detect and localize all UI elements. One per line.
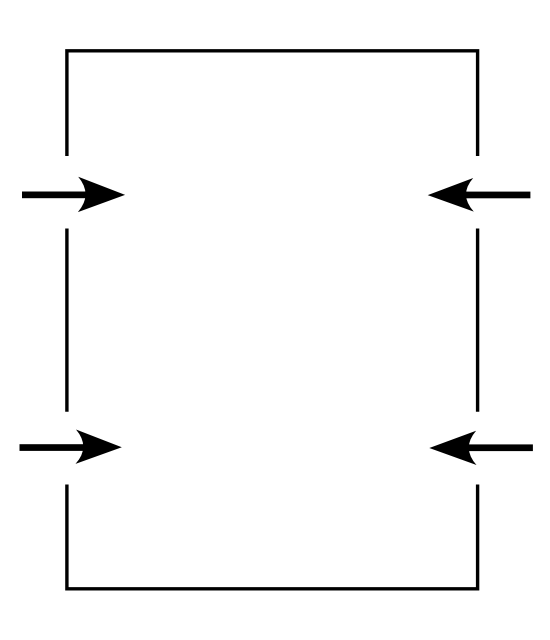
wire top side (left corner, top run, right corner) [67,51,478,156]
wire bottom side (left corner, bottom run, right corner) [67,485,478,589]
wire right middle segment [476,229,479,412]
arrow lower-left (points right into loop) [20,430,122,464]
wire left middle segment [65,229,68,412]
arrow upper-left (points right into loop) [22,177,125,212]
arrow lower-right (points left into loop) [429,431,533,465]
arrow upper-right (points left into loop) [428,178,531,212]
